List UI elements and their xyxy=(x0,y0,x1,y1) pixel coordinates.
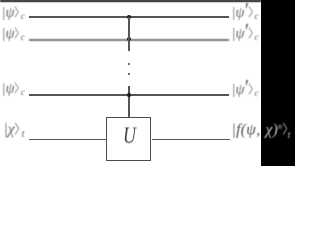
wire qubit 2 xyxy=(29,39,229,41)
gate U letter xyxy=(123,125,136,149)
wire target right segment xyxy=(152,139,231,141)
ket label |chi>_t target left xyxy=(4,122,25,143)
control vertical line lower segment xyxy=(128,86,130,117)
ket label |psi'>_c qubit 3 right xyxy=(232,83,259,101)
ket label |psi>_c qubit 2 left xyxy=(2,27,25,45)
control dot on qubit 1 xyxy=(127,15,131,19)
gate U box xyxy=(106,117,151,162)
ket label |f(psi,chi)^n>_t output light part on black bar xyxy=(232,119,291,144)
junction dot on qubit 3 xyxy=(127,93,131,97)
wire target left segment xyxy=(29,139,107,141)
black sidebar xyxy=(261,0,295,166)
top rule xyxy=(0,0,261,2)
ket label |f(psi,chi)^n>_t output dark part on white xyxy=(232,119,262,144)
vdots dot 1 xyxy=(128,63,130,65)
vdots dot 2 xyxy=(128,73,130,75)
wire qubit 1 xyxy=(29,16,229,18)
control dot on qubit 2 xyxy=(127,37,131,41)
ket label |psi'>_c qubit 1 right xyxy=(232,6,259,24)
control vertical line upper segment xyxy=(128,17,130,51)
ket label |psi>_c qubit 1 left xyxy=(2,6,25,24)
ket label |psi'>_c qubit 2 right xyxy=(232,27,259,45)
wire qubit 3 xyxy=(29,94,229,96)
ket label |psi>_c qubit 3 left xyxy=(2,82,25,100)
